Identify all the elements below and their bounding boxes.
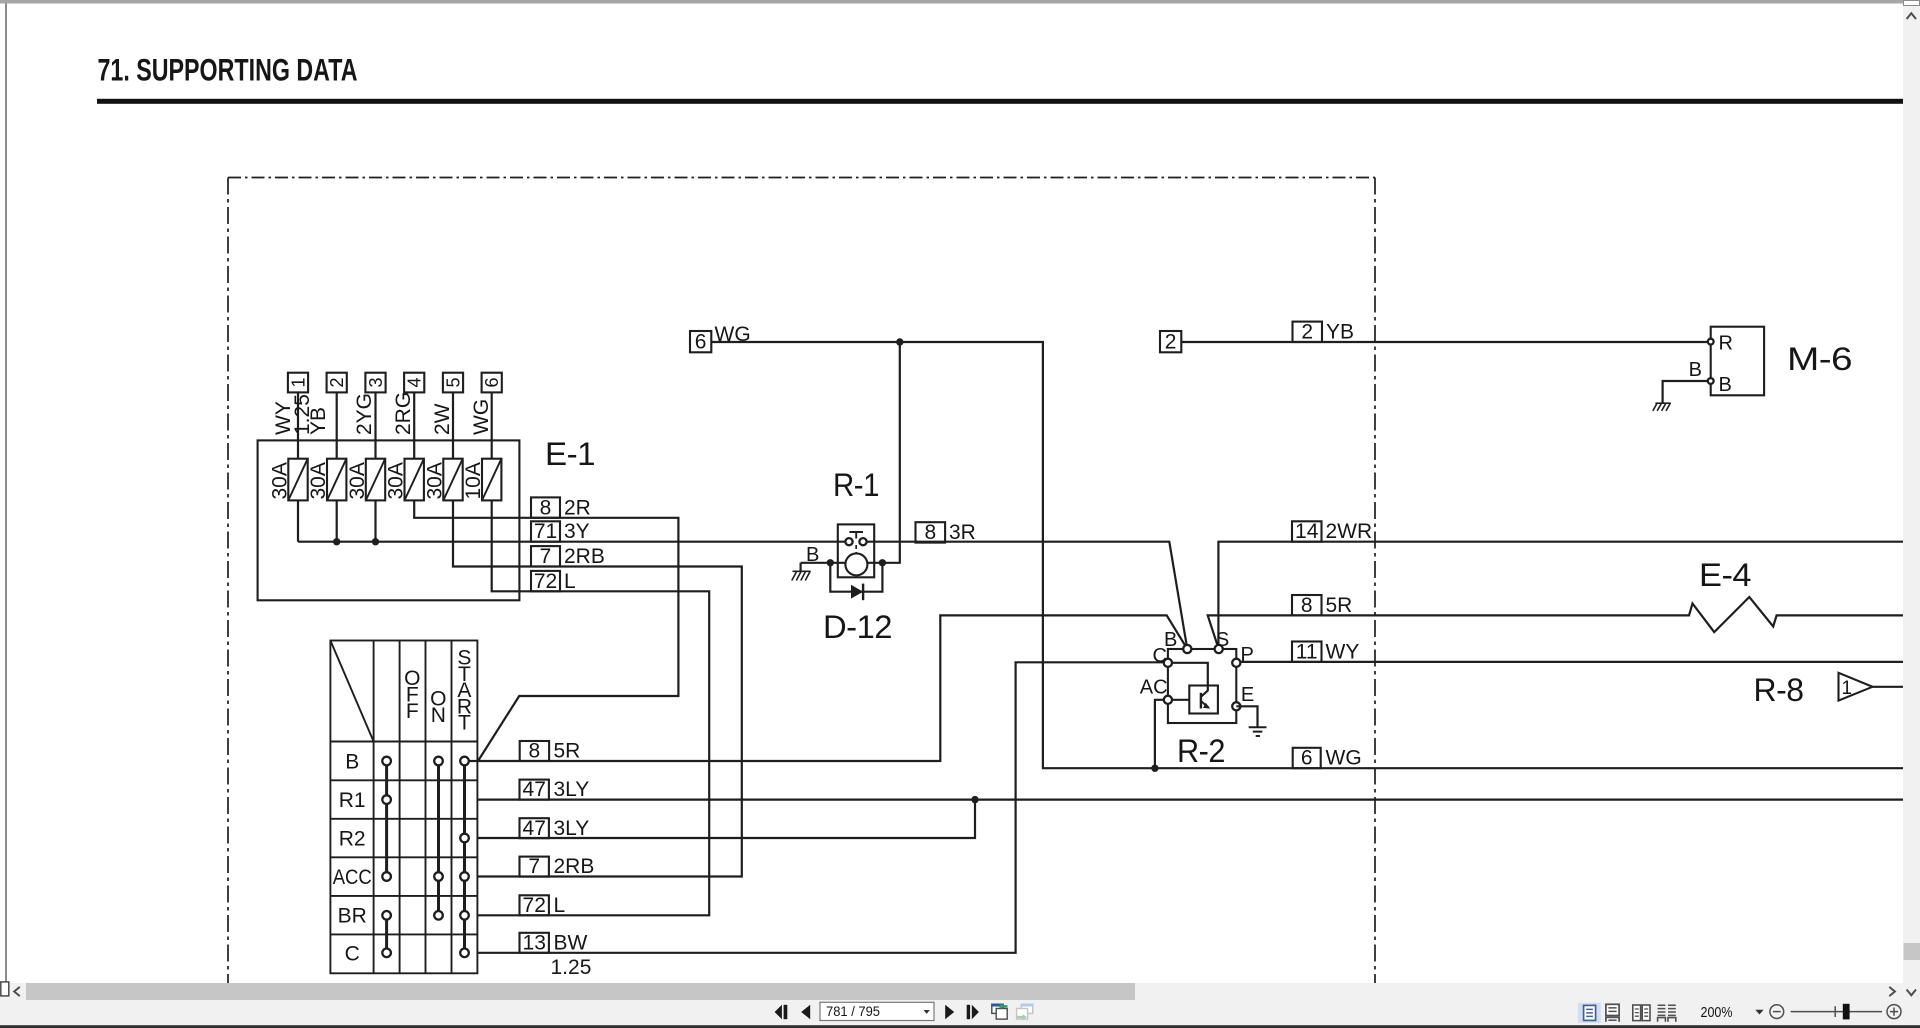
- svg-text:YB: YB: [1326, 321, 1354, 344]
- svg-text:2WR: 2WR: [1326, 520, 1373, 543]
- svg-text:1: 1: [1842, 678, 1853, 699]
- svg-text:5: 5: [443, 377, 463, 387]
- junction diode right: [879, 559, 886, 566]
- svg-text:1: 1: [288, 377, 308, 387]
- vertical scrollbar thumb: [1904, 943, 1920, 960]
- svg-text:ACC: ACC: [333, 866, 372, 889]
- fuse F1 30A: [269, 459, 308, 501]
- relay R-2 inner wire C to transistor: [1168, 663, 1208, 697]
- key switch contact circle col1 BR: [382, 911, 391, 920]
- svg-text:30A: 30A: [424, 462, 447, 499]
- svg-text:5R: 5R: [1326, 594, 1353, 617]
- M-6 ground symbol: [1653, 403, 1671, 411]
- svg-text:13: 13: [523, 931, 546, 954]
- relay R-1 box: [838, 524, 874, 577]
- svg-text:BW: BW: [554, 931, 588, 954]
- svg-text:47: 47: [523, 817, 546, 840]
- harness boundary dash-dot left: [227, 178, 229, 984]
- wire 3Y net: fuse2 drop: [336, 500, 338, 541]
- relay R-2 terminal C: [1153, 645, 1173, 667]
- svg-text:WG: WG: [1326, 747, 1362, 770]
- svg-text:C: C: [1153, 645, 1167, 667]
- diode D-12 branch wire: [830, 563, 882, 592]
- label box 13 BW: [520, 931, 588, 954]
- svg-text:E-4: E-4: [1699, 557, 1751, 593]
- toolbar first-page icon: [775, 1005, 788, 1019]
- label box 47 3LY R1: [520, 778, 590, 801]
- svg-text:5R: 5R: [554, 740, 581, 763]
- key switch contact circle col1 R1: [382, 795, 391, 804]
- label box 72 L: [531, 570, 576, 593]
- svg-text:3Y: 3Y: [564, 520, 590, 543]
- harness boundary dash-dot right: [1374, 178, 1376, 984]
- key switch contact circle col1 B: [382, 757, 391, 766]
- window left page border: [5, 4, 7, 983]
- key switch contact circle START B: [460, 757, 469, 766]
- wire 5R from key switch B to R-2 B: [477, 615, 1187, 761]
- wire 3Y net: fuse3 drop: [374, 500, 376, 541]
- svg-text:8: 8: [540, 496, 552, 519]
- toolbar zoom slider: [1791, 1004, 1882, 1020]
- M-6 terminal R: [1708, 333, 1733, 355]
- key switch contact circle ON B: [434, 757, 443, 766]
- label box 72 L BR: [520, 894, 566, 917]
- svg-text:6: 6: [695, 330, 707, 353]
- toolbar page number box: [820, 1002, 934, 1020]
- relay R-1 contact actuator T: [849, 532, 863, 539]
- wire from R-8 to right edge: [1873, 686, 1904, 688]
- label box 11 WY: [1292, 640, 1359, 663]
- svg-text:S: S: [1216, 629, 1229, 651]
- toolbar previous-view icon: [991, 1004, 1007, 1020]
- svg-text:YB: YB: [307, 407, 330, 435]
- key switch contact bar ON B-BR: [437, 761, 440, 915]
- svg-text:B: B: [1719, 374, 1732, 396]
- fuse F6 10A: [462, 459, 501, 501]
- relay R-2 box: [1168, 649, 1236, 723]
- vertical scrollbar top corner box: [1904, 1, 1920, 6]
- key switch contact circle col1 C: [382, 949, 391, 958]
- toolbar zoom out button: [1770, 1005, 1784, 1019]
- svg-text:WG: WG: [470, 399, 493, 435]
- svg-text:72: 72: [523, 894, 546, 917]
- svg-text:72: 72: [534, 570, 557, 593]
- wire pin1 to fuse F1: [297, 392, 299, 458]
- key switch contact circle START BR: [460, 911, 469, 920]
- svg-text:71. SUPPORTING DATA: 71. SUPPORTING DATA: [98, 51, 358, 87]
- wire YB from connector 2 to M-6 R: [1181, 341, 1708, 343]
- horizontal scrollbar right arrow: [1889, 987, 1895, 996]
- E-1 pin box 4: [404, 373, 424, 393]
- relay R-1 coil circle: [845, 553, 867, 575]
- wire 3R from R-1 contact to R-2 B diagonal: [867, 542, 1188, 649]
- key switch header diagonal: [330, 641, 373, 742]
- toolbar previous-page icon: [801, 1005, 810, 1019]
- wire WY from R-2 P to right edge: [1236, 661, 1903, 663]
- diode D-12 symbol: [851, 584, 863, 601]
- junction WG to R-1 coil riser: [896, 338, 903, 345]
- svg-text:7: 7: [528, 855, 540, 878]
- svg-text:14: 14: [1295, 520, 1319, 543]
- E-1 pin box 2: [327, 373, 347, 393]
- svg-text:B: B: [1689, 359, 1702, 381]
- wire BW from key switch C to R-2 C: [477, 662, 1163, 953]
- wire pin5 to fuse F5: [452, 392, 454, 458]
- key switch contact bar START B-C: [463, 761, 466, 953]
- junction WG to R-2 AC: [1151, 765, 1158, 772]
- svg-text:6: 6: [482, 377, 502, 387]
- svg-text:L: L: [554, 894, 566, 917]
- svg-text:2R: 2R: [564, 496, 591, 519]
- wire 3Y horizontal to R-1 contact: [298, 541, 845, 543]
- key switch contact circle START R2: [460, 834, 469, 843]
- svg-text:R-8: R-8: [1754, 672, 1804, 708]
- svg-text:30A: 30A: [346, 462, 369, 499]
- connector R-8 triangle 1: [1839, 673, 1873, 701]
- svg-text:P: P: [1241, 644, 1254, 666]
- E-1 pin box 6: [482, 373, 502, 393]
- vertical scrollbar down arrow: [1907, 990, 1916, 996]
- toolbar zoom dropdown caret: [1755, 1010, 1763, 1015]
- svg-text:30A: 30A: [385, 462, 408, 499]
- svg-text:1.25: 1.25: [551, 956, 592, 979]
- relay R-2 inner box: [1189, 686, 1218, 714]
- relay R-2 E ground symbol: [1249, 727, 1267, 736]
- key switch contact circle START C: [460, 949, 469, 958]
- title rule: [97, 99, 1903, 104]
- window top strip: [0, 0, 1920, 4]
- label box 47 3LY R2: [520, 817, 590, 840]
- svg-text:BR: BR: [338, 905, 367, 928]
- svg-text:R-2: R-2: [1177, 733, 1225, 769]
- svg-text:R-1: R-1: [833, 467, 879, 503]
- label box 14 2WR: [1292, 520, 1372, 543]
- wire L net: fuse6 drop and run: [477, 500, 709, 915]
- svg-text:30A: 30A: [269, 462, 292, 499]
- wire 3LY R2 output joining R1 line: [477, 800, 975, 838]
- key switch contact circle ON ACC: [434, 872, 443, 881]
- toolbar single page layout icon selected: [1578, 1003, 1601, 1023]
- horizontal scrollbar thumb: [26, 983, 1135, 1000]
- svg-text:2RG: 2RG: [392, 392, 415, 435]
- svg-text:7: 7: [540, 545, 552, 568]
- bottom toolbar background: [0, 1000, 1920, 1025]
- svg-text:AC: AC: [1140, 677, 1168, 699]
- relay R-2 terminal S: [1215, 629, 1230, 653]
- wire 3Y net: fuse1 drop: [297, 500, 299, 541]
- E-1 pin box 5: [443, 373, 463, 393]
- fuse F4 30A: [385, 459, 424, 501]
- relay R-1 coil wire: [801, 342, 900, 563]
- window bottom dark strip: [0, 1025, 1920, 1028]
- key switch contact bar column1 BR-C: [385, 915, 388, 953]
- svg-text:ON: ON: [430, 688, 446, 728]
- svg-text:C: C: [345, 942, 360, 965]
- toolbar next-view icon disabled: [1017, 1004, 1034, 1020]
- svg-text:781 / 795: 781 / 795: [826, 1004, 880, 1019]
- relay R-2 inner wire AC: [1168, 699, 1189, 701]
- label box 8 5R key switch: [520, 740, 581, 763]
- wire 2RB net: fuse5 drop and run: [453, 500, 742, 876]
- fuse F5 30A: [424, 459, 463, 501]
- svg-text:3: 3: [366, 377, 386, 387]
- key switch table column lines: [374, 641, 452, 974]
- horizontal scrollbar left arrow: [14, 987, 20, 996]
- svg-text:B: B: [345, 750, 359, 773]
- svg-text:3R: 3R: [949, 521, 976, 544]
- key switch contact bar column1 B-ACC: [385, 761, 388, 877]
- label box 8 3R: [916, 521, 976, 544]
- toolbar zoom in button: [1887, 1005, 1901, 1019]
- wire pin2 to fuse F2: [336, 392, 338, 458]
- key switch table row lines: [330, 742, 477, 935]
- svg-text:30A: 30A: [307, 462, 330, 499]
- relay R-2 terminal AC: [1140, 677, 1172, 704]
- svg-text:L: L: [564, 570, 576, 593]
- wire WG from connector 6 to riser: [711, 342, 1903, 768]
- key switch contact circle col1 ACC: [382, 872, 391, 881]
- svg-text:2W: 2W: [431, 403, 454, 435]
- svg-text:11: 11: [1296, 640, 1318, 663]
- svg-text:3LY: 3LY: [554, 778, 590, 801]
- wire pin3 to fuse F3: [374, 392, 376, 458]
- horizontal scrollbar track: [0, 983, 1903, 1000]
- connector 2 YB top: [1160, 330, 1181, 353]
- key switch B row stub to edge: [465, 760, 478, 762]
- harness boundary dash-dot top: [228, 177, 1375, 179]
- svg-text:6: 6: [1301, 747, 1313, 770]
- svg-text:2: 2: [1301, 321, 1313, 344]
- relay R-2 E ground wire: [1236, 706, 1257, 726]
- toolbar continuous layout icon: [1606, 1004, 1619, 1021]
- motor M-6 box: [1711, 327, 1764, 396]
- label box 7 2RB: [531, 545, 605, 568]
- label box 2 YB: [1293, 321, 1355, 344]
- fuse F3 30A: [346, 459, 385, 501]
- svg-text:8: 8: [1301, 594, 1313, 617]
- svg-text:2: 2: [327, 377, 347, 387]
- wire 3LY R1 output to right edge: [477, 798, 1903, 800]
- svg-text:10A: 10A: [462, 462, 485, 499]
- svg-text:71: 71: [534, 520, 557, 543]
- label box 6 WG right: [1293, 747, 1362, 770]
- M-6 ground wire B: [1663, 359, 1708, 403]
- junction fuse2 on 3Y: [333, 538, 340, 545]
- relay R-2 terminal E: [1232, 684, 1254, 710]
- vertical scrollbar track: [1903, 6, 1920, 1001]
- svg-text:M-6: M-6: [1787, 341, 1852, 377]
- vertical scrollbar up arrow: [1907, 13, 1916, 19]
- wire 2WR from R-2 S to right edge: [1218, 542, 1903, 649]
- svg-text:E: E: [1241, 684, 1254, 706]
- label box 8 2R: [531, 496, 591, 519]
- svg-text:D-12: D-12: [823, 609, 892, 645]
- svg-text:200%: 200%: [1701, 1004, 1733, 1021]
- toolbar next-page icon: [945, 1005, 954, 1019]
- toolbar two-page layout icon: [1633, 1005, 1650, 1021]
- relay R-2 terminal B: [1164, 629, 1191, 653]
- svg-text:WY: WY: [1326, 640, 1360, 663]
- svg-text:4: 4: [405, 377, 425, 387]
- wire 5R from R-2 S to E-4 and right edge: [1208, 597, 1903, 649]
- wire pin6 to fuse F6: [491, 392, 493, 458]
- svg-text:R2: R2: [339, 828, 366, 851]
- svg-text:2RB: 2RB: [554, 855, 595, 878]
- relay R-2 transistor symbol: [1201, 693, 1210, 709]
- junction diode left: [827, 559, 834, 566]
- toolbar two-page continuous layout icon: [1658, 1005, 1676, 1022]
- horizontal scrollbar left corner box: [1, 982, 9, 996]
- wire pin4 to fuse F4: [413, 392, 415, 458]
- junction 3LY R1-R2: [971, 796, 978, 803]
- fuse F2 30A: [307, 459, 346, 501]
- E-1 pin box 1: [288, 373, 308, 393]
- svg-text:47: 47: [523, 778, 546, 801]
- key switch contact circle START ACC: [460, 872, 469, 881]
- svg-text:R: R: [1719, 333, 1733, 355]
- key switch contact circle ON BR: [434, 911, 443, 920]
- svg-text:E-1: E-1: [545, 436, 595, 472]
- svg-text:OFF: OFF: [404, 667, 420, 723]
- wire 2R net: fuse4 drop and run to key switch feed: [414, 500, 678, 761]
- toolbar last-page icon: [967, 1005, 979, 1019]
- svg-text:R1: R1: [339, 789, 366, 812]
- svg-text:START: START: [457, 647, 472, 735]
- key switch table outline: [330, 641, 477, 974]
- relay R-1 contact circle left: [845, 538, 852, 545]
- svg-text:8: 8: [924, 521, 936, 544]
- label box 71 3Y: [531, 520, 590, 543]
- svg-text:8: 8: [529, 740, 541, 763]
- svg-text:2YG: 2YG: [353, 393, 376, 435]
- label box 8 5R right: [1292, 594, 1352, 617]
- label box 7 2RB ACC: [520, 855, 595, 878]
- wire AC branch to WG line: [1155, 700, 1168, 768]
- svg-text:3LY: 3LY: [554, 817, 590, 840]
- junction fuse3 on 3Y: [372, 538, 379, 545]
- relay R-2 terminal P: [1232, 644, 1254, 667]
- M-6 terminal B: [1708, 374, 1732, 396]
- svg-text:2RB: 2RB: [564, 545, 605, 568]
- relay R-1 actuator dashed link: [855, 545, 857, 553]
- fuse box E-1 outline: [258, 440, 520, 600]
- relay R-1 coil ground B: [792, 544, 820, 581]
- svg-text:2: 2: [1165, 330, 1177, 353]
- E-1 pin box 3: [365, 373, 385, 393]
- connector 6 WG top: [690, 323, 751, 353]
- relay R-1 contact circle right: [859, 538, 866, 545]
